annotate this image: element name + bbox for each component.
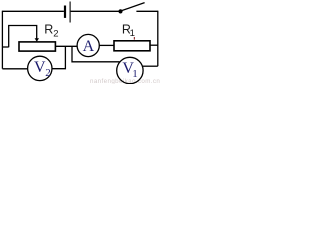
- svg-text:V: V: [34, 59, 46, 76]
- rheostat R2 box: [19, 42, 55, 51]
- wire right edge: [157, 11, 159, 66]
- wire bottom-left to V2: [2, 68, 27, 70]
- switch S fixed contact wire: [136, 10, 157, 12]
- switch S blade: [121, 3, 144, 11]
- battery B thick plate (negative): [64, 6, 66, 18]
- wire ammeter to R1: [99, 44, 114, 46]
- resistor R1 box: [114, 41, 150, 51]
- rheostat R2 wiper wire (staple): [9, 26, 37, 48]
- wire R2 to ammeter (with V2/V1 tap junctions): [55, 45, 77, 47]
- voltmeter V1 circle: [117, 57, 143, 83]
- wire V1 right branch: [142, 65, 158, 67]
- svg-text:R: R: [44, 23, 53, 37]
- switch S pivot dot: [118, 9, 122, 13]
- rheostat R2 wiper arrowhead: [35, 38, 39, 41]
- wire battery to switch: [71, 10, 119, 12]
- wire left edge: [1, 11, 3, 69]
- voltmeter V2 circle: [28, 56, 52, 80]
- svg-text:2: 2: [45, 67, 51, 79]
- battery B thin plate (positive): [69, 2, 71, 23]
- wire V1 left branch (under ammeter): [72, 46, 120, 62]
- wire stub to rheostat wiper: [2, 46, 8, 48]
- svg-text:A: A: [83, 38, 95, 55]
- svg-text:1: 1: [130, 28, 135, 39]
- wire V2 right branch: [52, 46, 65, 68]
- wire R1 to right edge: [150, 44, 158, 46]
- svg-text:1: 1: [132, 68, 138, 80]
- ammeter A circle: [77, 34, 99, 56]
- wire top-left to battery: [2, 10, 64, 12]
- watermark fragment red tick: [134, 37, 135, 40]
- svg-text:2: 2: [53, 29, 58, 40]
